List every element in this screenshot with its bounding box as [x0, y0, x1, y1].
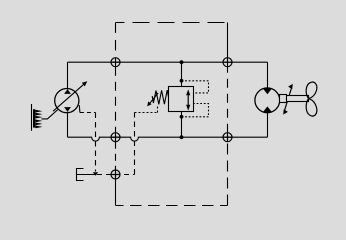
enclosure dashed line: left vertical between coupling 3 and coupling 5 [115, 142, 117, 170]
control actuator A1: spring teeth [35, 110, 42, 113]
junction dot: lower pilot tap [180, 115, 184, 119]
pump P1: top flow triangle [64, 89, 71, 94]
drain dashed line: vertical riser from tank header to valve spring pilot [134, 113, 136, 175]
wire: pump top port riser [67, 62, 69, 89]
enclosure dashed line: left vertical between coupling 1 and coupling 3 [115, 67, 117, 133]
coupling 5: tank header coupling [111, 170, 120, 179]
enclosure dashed line: bottom horizontal [116, 205, 228, 207]
motor M1: top flow triangle [263, 88, 272, 94]
pump P1: variable displacement pump circle [55, 89, 79, 113]
motor M1: rotation arrowhead lower [283, 109, 288, 114]
wire: motor bottom port drop [267, 112, 269, 137]
wire: pump bottom port drop [67, 112, 69, 137]
relief valve V1: spring [152, 90, 168, 104]
wire: pump case drain stub [78, 105, 81, 112]
enclosure line: left vertical below coupling 5 [115, 179, 117, 206]
motor M1: rotation arrowhead upper [288, 84, 293, 89]
wire: motor top port riser [267, 62, 269, 88]
pilot dotted line: horizontal toward spring chamber [135, 112, 158, 114]
motor M1: hydraulic motor circle [255, 88, 280, 113]
junction dot: valve outlet on bottom line [180, 135, 184, 139]
relief valve V1: internal arrowhead up [186, 89, 190, 95]
wire: relief valve inlet from top line [181, 62, 183, 86]
coupling 2: upper-right line coupling [223, 58, 232, 67]
wire: bottom return line with two crossover hops [68, 137, 268, 141]
junction dot: upper pilot tap [180, 79, 184, 83]
arrowhead: drain flow into tank line [93, 172, 98, 176]
coupling 3: lower-left line coupling [111, 133, 120, 142]
relief valve V1: internal arrowhead down [186, 105, 190, 111]
wire: top pressure line P [68, 61, 268, 63]
motor M1: shaft [287, 96, 309, 102]
wire: relief valve outlet to bottom line [181, 112, 183, 138]
relief valve V1: body square [169, 87, 194, 112]
propeller PR1: upper blade [306, 82, 317, 99]
drain dashed line: horizontal tank header [97, 174, 135, 176]
pilot dotted line: upper remote sense loop [182, 81, 209, 93]
enclosure dashed line: right vertical between coupling 4 and coupling 2 [227, 67, 229, 133]
motor M1: bottom flow triangle [263, 106, 272, 112]
coupling 1: upper-left line coupling [111, 58, 120, 67]
wire: tank drain pipe [77, 174, 97, 176]
control actuator A1: back bar [33, 109, 35, 127]
enclosure dashed line: upper-left vertical [115, 23, 117, 58]
enclosure dashed line: top horizontal [116, 22, 228, 24]
enclosure line: upper-right vertical [227, 23, 229, 58]
enclosure dashed line: lower-right vertical [227, 142, 229, 206]
control actuator A1: output link [42, 110, 58, 119]
junction dot: valve inlet tap on top line [180, 60, 184, 64]
drain dashed line: horizontal from pump to drop [80, 112, 96, 114]
tank T1: reservoir symbol [77, 169, 84, 181]
propeller PR1: lower blade [306, 99, 317, 116]
motor M1: shaft coupling box [280, 95, 287, 103]
coupling 4: lower-right line coupling [223, 133, 232, 142]
drain dashed line: vertical drop to tank line [95, 113, 97, 172]
pilot dotted line: lower remote sense loop [182, 104, 209, 117]
control actuator A1: stem line [31, 104, 33, 131]
relief valve V1: spring adjustment arrow [149, 93, 158, 104]
motor M1: bidirectional rotation arrow [284, 87, 292, 112]
pump P1: variable displacement diagonal arrow [53, 84, 84, 111]
relief valve V1: internal flow arrow line [187, 92, 189, 106]
pump P1: bottom flow triangle [64, 107, 71, 112]
pilot dotted line: vertical up to spring chamber [157, 106, 159, 113]
